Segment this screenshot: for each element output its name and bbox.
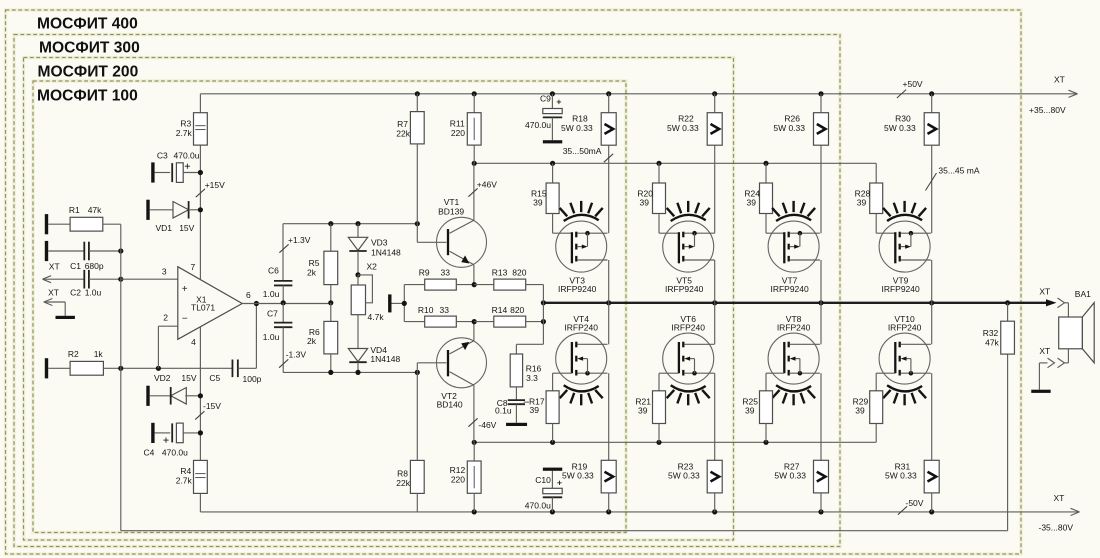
svg-text:-15V: -15V	[203, 401, 221, 411]
svg-text:2: 2	[163, 313, 168, 323]
svg-text:470.0u: 470.0u	[162, 448, 188, 458]
ground C8	[506, 423, 527, 426]
svg-text:820: 820	[510, 305, 524, 315]
svg-text:R7: R7	[397, 119, 408, 129]
capacitor C8 0.1u	[495, 398, 529, 423]
mosfet VT4 IRFP240 n-channel	[556, 314, 608, 384]
svg-text:МОСФИТ 200: МОСФИТ 200	[38, 63, 139, 80]
svg-text:47k: 47k	[88, 205, 102, 215]
svg-text:R11: R11	[450, 118, 465, 128]
node top rail R22 column	[712, 91, 717, 96]
capacitor C5 100p	[209, 360, 261, 385]
svg-text:4: 4	[191, 337, 196, 347]
svg-text:IRFP9240: IRFP9240	[665, 284, 704, 294]
svg-text:TL071: TL071	[191, 302, 215, 312]
node +1.3V R5	[328, 221, 333, 226]
capacitor C7 1.0u	[263, 303, 293, 373]
resistor R25 39 gate lower	[742, 373, 784, 442]
svg-text:2k: 2k	[307, 267, 317, 277]
node output rail S3	[818, 300, 823, 305]
resistor R17 39 gate lower	[546, 373, 572, 442]
resistor R23 5W 0.33 source bottom	[668, 373, 722, 512]
resistor R5 2k	[307, 224, 338, 303]
ground C10	[543, 468, 562, 471]
node R9/R13 emitter junction	[472, 282, 477, 287]
node +46V rail R15	[550, 161, 555, 166]
svg-text:R12: R12	[450, 465, 466, 475]
wire -50V bottom rail	[200, 511, 1078, 513]
wire VT7 drain to output	[820, 260, 822, 303]
resistor R31 5W 0.33 source bottom	[885, 373, 939, 512]
svg-text:7: 7	[191, 262, 196, 272]
XT speaker return connector	[1039, 346, 1064, 390]
resistor R28 39 gate upper	[855, 163, 896, 233]
node R2 pin2 junction	[156, 366, 161, 371]
ground C9	[543, 140, 562, 143]
heatsink VT5	[667, 201, 710, 221]
heatsink VT3	[560, 201, 603, 221]
label -15V with slash	[195, 401, 221, 420]
module border МОСФИТ 200	[24, 58, 734, 541]
svg-text:5W 0.33: 5W 0.33	[562, 471, 594, 481]
svg-text:5W 0.33: 5W 0.33	[668, 471, 700, 481]
svg-text:22k: 22k	[396, 478, 410, 488]
node -1.3V R6	[328, 370, 333, 375]
node bottom rail R19 column	[606, 509, 611, 514]
svg-text:2k: 2k	[307, 336, 317, 346]
svg-text:IRFP240: IRFP240	[777, 323, 811, 333]
wire +50V top rail	[200, 93, 1076, 95]
wire output to zobel	[516, 303, 543, 354]
svg-text:IRFP240: IRFP240	[671, 323, 705, 333]
svg-text:5W 0.33: 5W 0.33	[884, 123, 916, 133]
resistor R30 5W 0.33 source top	[884, 94, 939, 233]
svg-text:470.0u: 470.0u	[525, 501, 551, 511]
mosfet VT5 IRFP9240 p-channel	[663, 221, 715, 294]
label R17 39	[529, 396, 545, 415]
svg-text:+50V: +50V	[903, 79, 923, 89]
svg-text:VD3: VD3	[371, 238, 388, 248]
wire R7 to VT1 base	[417, 224, 446, 243]
node C3 +15V	[198, 170, 203, 175]
svg-text:4.7k: 4.7k	[368, 312, 385, 322]
terminal bar input R2	[45, 358, 48, 378]
svg-text:35...50mA: 35...50mA	[563, 146, 602, 156]
node C6/C7 output junction	[281, 300, 286, 305]
resistor R6 2k	[307, 303, 338, 373]
wire VT2 collector to -46V	[473, 385, 475, 442]
svg-text:IRFP9240: IRFP9240	[770, 284, 809, 294]
svg-text:2.7k: 2.7k	[176, 476, 193, 486]
capacitor C1 680p	[48, 242, 121, 271]
wire VT8 drain to output	[820, 303, 822, 345]
resistor R8 22k	[396, 460, 424, 512]
svg-text:X2: X2	[367, 262, 378, 272]
svg-text:C5: C5	[209, 373, 220, 383]
node output rail R13/R14 join	[541, 300, 546, 305]
node VD1 +15V	[198, 207, 203, 212]
svg-text:39: 39	[530, 405, 540, 415]
resistor R32 47k	[983, 303, 1015, 354]
capacitor C10 470.0u electrolytic	[525, 471, 562, 512]
svg-text:820: 820	[512, 268, 526, 278]
module border МОСФИТ 300	[14, 35, 840, 547]
svg-text:39: 39	[855, 406, 865, 416]
transistor VT1 BD139	[437, 197, 487, 267]
wire +46V gate rail upper	[474, 162, 876, 164]
wire +input to op-amp pin3	[121, 278, 178, 280]
terminal bar C4	[151, 423, 154, 443]
svg-text:МОСФИТ 100: МОСФИТ 100	[37, 87, 138, 104]
capacitor C4 470.0u electrolytic	[144, 423, 201, 457]
node top rail R26 column	[818, 91, 823, 96]
node VD2 -15V	[198, 393, 203, 398]
svg-text:C1: C1	[70, 261, 81, 271]
svg-text:C2: C2	[70, 288, 81, 298]
svg-text:1k: 1k	[94, 349, 104, 359]
node R1/C1 junction	[118, 248, 123, 253]
terminal bar VD2	[146, 386, 149, 406]
terminal bar driver input	[388, 294, 391, 312]
resistor R12 220	[450, 442, 481, 512]
wire VT2 emitter to R10 row	[473, 322, 475, 341]
mosfet VT6 IRFP240 n-channel	[663, 314, 715, 384]
node bottom rail R27 column	[818, 509, 823, 514]
svg-text:XT: XT	[49, 261, 60, 271]
node +1.3V VD3	[355, 221, 360, 226]
node +46V rail R24	[763, 161, 768, 166]
svg-text:1N4148: 1N4148	[371, 248, 401, 258]
svg-text:39: 39	[747, 198, 757, 208]
node bottom rail R23 column	[712, 509, 717, 514]
svg-text:BD140: BD140	[437, 399, 463, 409]
svg-text:+35...80V: +35...80V	[1029, 105, 1066, 115]
svg-text:R13: R13	[492, 268, 508, 278]
diode VD1 15V zener	[150, 201, 201, 233]
svg-text:C10: C10	[535, 475, 551, 485]
resistor R16 3.3	[510, 354, 541, 400]
node top rail R18 column	[606, 91, 611, 96]
speaker BA1	[1059, 289, 1095, 363]
svg-text:3.3: 3.3	[526, 373, 538, 383]
node R14 output junction	[541, 319, 546, 324]
wire VT1 emitter to R9 row	[473, 265, 475, 285]
wire output to speaker	[1065, 303, 1069, 317]
svg-text:39: 39	[638, 406, 648, 416]
svg-text:1.0u: 1.0u	[263, 289, 280, 299]
wire VT3 drain to output	[608, 260, 610, 303]
wire +15V column	[199, 94, 201, 280]
svg-text:R22: R22	[678, 114, 694, 124]
svg-text:0.1u: 0.1u	[495, 406, 512, 416]
terminal bar input C1	[45, 241, 48, 261]
heatsink VT6	[667, 385, 710, 405]
XT input arrow ground	[44, 287, 65, 315]
capacitor C2 1.0u	[70, 270, 121, 298]
svg-text:220: 220	[451, 475, 465, 485]
label +50V with slash	[897, 79, 923, 98]
svg-text:15V: 15V	[181, 373, 196, 383]
resistor R24 39 gate upper	[744, 163, 784, 233]
node top rail C9 column	[550, 91, 555, 96]
terminal bar VD1	[146, 200, 149, 220]
label -46V with slash	[468, 418, 496, 430]
svg-text:C9: C9	[540, 94, 551, 104]
wire -15V column	[199, 327, 201, 512]
resistor R4 2.7k	[176, 460, 208, 512]
heatsink VT4	[560, 385, 603, 405]
trimmer X2 4.7k	[351, 262, 384, 323]
svg-text:R26: R26	[784, 114, 800, 124]
svg-text:BA1: BA1	[1075, 289, 1091, 299]
svg-text:33: 33	[440, 305, 450, 315]
resistor R2 1k	[48, 349, 158, 375]
heatsink VT10	[883, 385, 926, 405]
svg-text:R9: R9	[419, 268, 430, 278]
svg-text:VD1: VD1	[156, 223, 173, 233]
node -1.3V VD4	[355, 370, 360, 375]
ground speaker return	[1031, 390, 1050, 393]
svg-text:100p: 100p	[243, 374, 262, 384]
svg-text:R3: R3	[180, 119, 191, 129]
node bottom rail R31 column	[929, 509, 934, 514]
node op-amp output	[254, 301, 259, 306]
wire feedback bottom	[121, 530, 1008, 532]
node output rail S1	[606, 300, 611, 305]
node +1.3V R7 junction	[415, 221, 420, 226]
svg-text:2.7k: 2.7k	[176, 128, 193, 138]
svg-text:1.0u: 1.0u	[85, 288, 102, 298]
label 35...50mA with slash	[563, 146, 613, 162]
svg-text:33: 33	[441, 268, 451, 278]
XT terminal arrow +50V	[1029, 75, 1078, 116]
svg-text:5W 0.33: 5W 0.33	[773, 123, 805, 133]
resistor R19 5W 0.33 source bottom	[562, 373, 616, 512]
resistor R22 5W 0.33 source top	[667, 94, 722, 233]
svg-text:-46V: -46V	[478, 420, 496, 430]
svg-text:IRFP240: IRFP240	[564, 323, 598, 333]
node C4 -15V	[198, 430, 203, 435]
svg-text:R32: R32	[983, 328, 999, 338]
wire pin2 to R2 row	[158, 326, 177, 368]
node output rail S4	[929, 300, 934, 305]
wire VT6 drain to output	[714, 303, 716, 345]
label +15V with slash	[196, 180, 225, 197]
svg-text:39: 39	[533, 198, 543, 208]
svg-text:XT: XT	[1039, 287, 1050, 297]
node R5/R6 junction	[328, 300, 333, 305]
svg-text:−: −	[182, 314, 188, 325]
resistor R29 39 gate lower	[853, 373, 896, 442]
node -46V rail R21	[656, 440, 661, 445]
svg-text:C4: C4	[144, 448, 155, 458]
diode VD2 15V zener	[150, 373, 201, 405]
resistor R21 39 gate lower	[635, 373, 678, 442]
svg-text:C7: C7	[267, 309, 278, 319]
wire feedback right column	[1007, 354, 1009, 531]
node X2 top	[355, 272, 360, 277]
node +input junction	[118, 277, 123, 282]
svg-text:-1.3V: -1.3V	[286, 350, 307, 360]
capacitor C3 470.0u electrolytic	[155, 151, 201, 183]
svg-text:39: 39	[745, 406, 755, 416]
svg-text:+1.3V: +1.3V	[288, 235, 311, 245]
svg-text:VT1: VT1	[444, 197, 460, 207]
svg-text:XT: XT	[48, 287, 59, 297]
svg-text:39: 39	[640, 198, 650, 208]
svg-text:5W 0.33: 5W 0.33	[561, 123, 593, 133]
svg-text:15V: 15V	[179, 223, 194, 233]
resistor R26 5W 0.33 source top	[773, 94, 828, 233]
svg-text:470.0u: 470.0u	[174, 151, 200, 161]
svg-text:R16: R16	[526, 364, 542, 374]
node -1.3V R8 junction	[415, 370, 420, 375]
svg-text:470.0u: 470.0u	[525, 120, 551, 130]
svg-text:6: 6	[246, 290, 251, 300]
node bottom rail C10 column	[550, 509, 555, 514]
svg-text:+: +	[182, 284, 188, 295]
svg-text:BD139: BD139	[438, 207, 464, 217]
svg-text:R2: R2	[68, 349, 79, 359]
svg-text:22k: 22k	[396, 129, 410, 139]
label -1.3V with slash	[279, 350, 306, 368]
svg-text:C6: C6	[268, 266, 279, 276]
capacitor C9 470.0u electrolytic	[525, 94, 562, 141]
XT output arrow	[1039, 287, 1064, 308]
node -46V rail R25	[763, 440, 768, 445]
transistor VT2 BD140	[437, 338, 487, 410]
resistor R1 47k	[48, 205, 121, 231]
svg-text:5W 0.33: 5W 0.33	[667, 123, 699, 133]
wire R8 to VT2 base	[417, 363, 446, 461]
wire feedback left column	[120, 224, 122, 531]
terminal bar C3	[151, 162, 154, 182]
resistor R10 33	[404, 305, 474, 327]
svg-text:R4: R4	[180, 466, 191, 476]
XT input arrow signal	[43, 261, 85, 282]
wire -1.3V rail	[283, 371, 417, 373]
node top rail R7 column	[415, 91, 420, 96]
node top rail R30 column	[929, 91, 934, 96]
wire VT9 drain to output	[931, 260, 933, 303]
svg-text:680p: 680p	[85, 261, 104, 271]
svg-text:IRFP9240: IRFP9240	[558, 284, 597, 294]
resistor R20 39 gate upper	[637, 163, 678, 233]
wire VT4 drain to output	[608, 303, 610, 345]
svg-text:XT: XT	[1054, 75, 1065, 85]
wire VT5 drain to output	[714, 260, 716, 303]
terminal bar input R1	[45, 214, 48, 234]
svg-text:5W 0.33: 5W 0.33	[774, 471, 806, 481]
resistor R7 22k	[396, 94, 424, 224]
mosfet VT9 IRFP9240 p-channel	[879, 221, 931, 294]
resistor R3 2.7k	[176, 113, 208, 145]
label 35...45 mA with slash	[926, 166, 980, 191]
svg-text:IRFP240: IRFP240	[888, 323, 922, 333]
wire output rail to speaker	[543, 302, 1049, 304]
label +46V with slash	[468, 180, 497, 197]
svg-text:R1: R1	[69, 205, 80, 215]
svg-text:+46V: +46V	[477, 180, 497, 190]
svg-text:R18: R18	[572, 114, 588, 124]
node output rail R32	[1005, 300, 1010, 305]
wire VT1 collector to +46V	[473, 163, 475, 220]
svg-text:1N4148: 1N4148	[370, 354, 400, 364]
svg-text:C3: C3	[157, 151, 168, 161]
svg-text:3: 3	[162, 267, 167, 277]
node +46V rail VT1 collector	[472, 161, 477, 166]
module border МОСФИТ 100	[33, 81, 626, 533]
svg-text:-50V: -50V	[906, 498, 924, 508]
node R10/R14 emitter junction	[472, 319, 477, 324]
mosfet VT8 IRFP240 n-channel	[768, 314, 820, 384]
wire R13 to output rail	[542, 285, 544, 303]
svg-text:МОСФИТ 300: МОСФИТ 300	[39, 39, 140, 56]
node driver input	[402, 301, 407, 306]
diode VD3 1N4148	[348, 224, 401, 275]
svg-text:+15V: +15V	[205, 180, 225, 190]
mosfet VT3 IRFP9240 p-channel	[556, 221, 608, 294]
mosfet VT7 IRFP9240 p-channel	[768, 221, 820, 294]
mosfet VT10 IRFP240 n-channel	[879, 314, 931, 384]
op-amp X1 TL071	[162, 262, 251, 347]
svg-text:220: 220	[451, 128, 465, 138]
svg-text:-35...80V: -35...80V	[1039, 523, 1074, 533]
ground input	[56, 316, 75, 319]
node R2 feedback junction	[118, 366, 123, 371]
node -46V rail VT2 collector	[472, 440, 477, 445]
resistor R18 5W 0.33 source top	[561, 94, 616, 233]
wire speaker return	[1065, 349, 1069, 363]
wire driver input node	[392, 285, 405, 322]
diode VD4 1N4148	[348, 315, 400, 373]
resistor R13 820	[474, 268, 543, 291]
node top rail R11 column	[472, 91, 477, 96]
node output rail S2	[712, 300, 717, 305]
svg-text:R8: R8	[397, 469, 408, 479]
heatsink VT9	[883, 201, 926, 221]
heatsink VT8	[772, 385, 815, 405]
node -46V rail R17	[550, 440, 555, 445]
resistor R11 220	[450, 94, 481, 164]
label +1.3V with slash	[279, 235, 310, 253]
wire -46V gate rail lower	[474, 441, 876, 443]
svg-text:R30: R30	[895, 114, 911, 124]
svg-text:VD2: VD2	[154, 373, 171, 383]
wire VT10 drain to output	[931, 303, 933, 345]
svg-text:47k: 47k	[985, 338, 999, 348]
label -50V with slash	[898, 498, 924, 515]
svg-text:R14: R14	[492, 305, 508, 315]
svg-text:R10: R10	[418, 305, 434, 315]
resistor R15 39 gate upper	[531, 163, 572, 233]
capacitor C6 1.0u	[263, 266, 293, 303]
svg-text:XT: XT	[1039, 346, 1050, 356]
node bottom rail R12 column	[472, 509, 477, 514]
svg-text:IRFP9240: IRFP9240	[881, 284, 920, 294]
svg-text:35...45 mA: 35...45 mA	[938, 166, 979, 176]
node +46V rail R20	[656, 161, 661, 166]
heatsink VT7	[772, 201, 815, 221]
wire C5 to output node	[255, 303, 257, 369]
wire op-amp output row	[242, 303, 331, 305]
resistor R14 820	[474, 305, 543, 327]
resistor R9 33	[404, 268, 474, 291]
svg-text:МОСФИТ 400: МОСФИТ 400	[37, 15, 138, 32]
svg-text:39: 39	[857, 198, 867, 208]
wire +1.3V rail	[283, 224, 417, 281]
wire R2 row to C5	[158, 367, 232, 369]
